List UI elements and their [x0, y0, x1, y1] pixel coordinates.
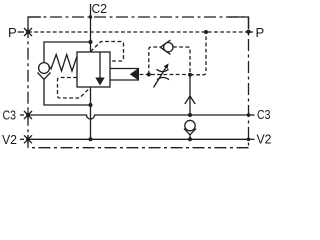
- check valve CV1 ball: [39, 63, 50, 74]
- restrictor adjustment arrow: [154, 67, 167, 88]
- C3 rail wire with hop over drain line: [28, 115, 249, 119]
- port V2 left star dot: [26, 137, 30, 141]
- boundary corner solid top-left: [28, 17, 41, 32]
- enclosure boundary right (dash-dot): [248, 17, 250, 148]
- pilot piston channel top wall: [110, 68, 139, 70]
- V2 rail wire: [28, 138, 249, 140]
- relief valve RV1 body box: [77, 52, 110, 87]
- pilot piston arrow (filled): [130, 68, 139, 81]
- svg-text:C2: C2: [92, 1, 108, 16]
- flow direction arrowhead (open, up): [185, 96, 195, 104]
- svg-text:C3: C3: [257, 107, 271, 122]
- pilot check valve CV2 seat: [160, 40, 170, 55]
- pilot riser to P line (dashed): [190, 32, 206, 75]
- pilot piston channel bottom wall: [110, 79, 139, 81]
- port C3 rail: left text stub: [20, 114, 24, 116]
- svg-text:V2: V2: [2, 132, 17, 147]
- node C2 / branch junction: [89, 40, 93, 44]
- pilot line to node (dashed): [140, 74, 149, 76]
- svg-text:V2: V2: [257, 131, 272, 146]
- pilot check branch riser (dashed): [149, 47, 160, 75]
- junction node on P line at x=206: [204, 30, 208, 34]
- port P right: lead stub: [249, 31, 254, 33]
- pilot line P-P (dashed, y=32): [28, 31, 249, 33]
- port C3 right lead stub: [249, 114, 255, 116]
- node C2 at boundary: [89, 15, 92, 18]
- adjustable restrictor branch (dashed): [151, 74, 187, 76]
- pilot check branch to right node (dashed): [173, 47, 190, 73]
- node: right pilot junction: [188, 73, 192, 77]
- port P left: star center dot: [26, 30, 30, 34]
- node C3/check junction: [188, 113, 192, 117]
- svg-text:C3: C3: [3, 108, 17, 123]
- svg-text:P: P: [256, 25, 265, 40]
- main drain wire from valve to V2: [90, 87, 92, 139]
- restrictor venturi arcs: [157, 69, 170, 79]
- pilot check valve CV2 ball: [164, 43, 173, 52]
- port V2 left plug star X: [27, 135, 29, 144]
- wire: node down to C3 with flow arrow: [189, 75, 191, 115]
- port V2 rail: left text stub: [20, 138, 24, 140]
- boundary corner solid top-right: [228, 17, 249, 28]
- relief valve RV1 spring: [49, 55, 77, 72]
- wire: CV1 down and right to drain junction: [44, 79, 91, 105]
- node: pilot split junction: [147, 73, 151, 77]
- port C2 riser wire: [90, 4, 92, 52]
- port P left: lead stub: [18, 31, 25, 33]
- svg-text:P: P: [8, 25, 17, 40]
- enclosure boundary left (dash-dot): [27, 36, 29, 148]
- enclosure boundary bottom (dash-dot): [28, 147, 249, 149]
- wire: branch to check valve CV1 (top): [44, 42, 91, 63]
- spring chamber drain pilot (dashed): [58, 78, 91, 99]
- relief valve RV1 flow path arrow: [99, 52, 101, 78]
- port C3 left plug star X: [27, 111, 29, 120]
- port C3 left star dot: [26, 113, 30, 117]
- node: drain junction: [89, 103, 93, 107]
- port P left: plug star X: [27, 28, 29, 39]
- enclosure boundary top (dash-dot): [28, 16, 249, 18]
- check valve CV3 seat: [184, 129, 196, 135]
- node C3 right boundary: [247, 113, 251, 117]
- port V2 right lead stub: [249, 138, 255, 140]
- node V2/CV3 junction: [188, 137, 192, 141]
- check valve CV3 between C3 and V2: ball: [185, 120, 195, 130]
- check valve CV1 seat: [38, 73, 51, 80]
- node V2 right boundary: [247, 138, 251, 142]
- internal pilot from C2 to spool end (dashed): [91, 42, 124, 62]
- port P right: boundary node dot: [246, 30, 250, 34]
- node V2/drain junction: [89, 137, 93, 141]
- wire CV3 to V2 rail: [189, 135, 191, 140]
